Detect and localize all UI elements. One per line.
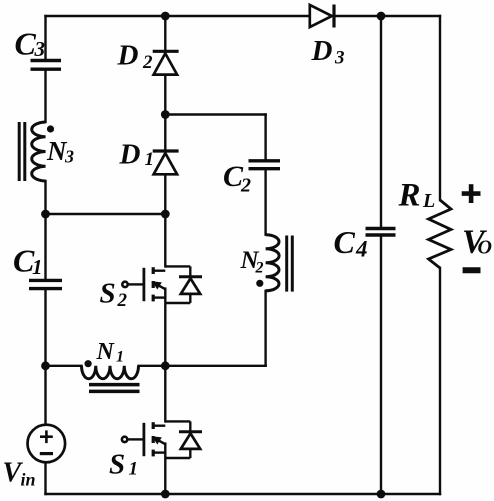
svg-text:D: D	[311, 35, 333, 67]
svg-text:C: C	[334, 224, 356, 260]
svg-text:2: 2	[255, 260, 264, 277]
svg-text:2: 2	[240, 175, 251, 197]
svg-text:3: 3	[34, 37, 46, 61]
svg-text:3: 3	[64, 147, 74, 167]
svg-text:1: 1	[129, 459, 139, 480]
svg-text:4: 4	[355, 237, 368, 262]
svg-text:L: L	[422, 190, 435, 212]
svg-text:O: O	[478, 237, 492, 259]
svg-text:1: 1	[116, 349, 124, 366]
svg-text:3: 3	[334, 48, 345, 69]
svg-text:1: 1	[145, 149, 155, 170]
svg-text:S: S	[109, 449, 125, 481]
svg-text:C: C	[15, 25, 37, 61]
svg-text:S: S	[100, 278, 116, 310]
svg-text:2: 2	[142, 52, 153, 73]
svg-text:R: R	[398, 178, 421, 214]
svg-text:N: N	[96, 339, 116, 365]
svg-text:1: 1	[32, 255, 43, 279]
svg-text:in: in	[21, 470, 36, 490]
svg-text:D: D	[117, 40, 139, 72]
svg-text:2: 2	[117, 290, 128, 311]
svg-text:D: D	[119, 139, 141, 171]
